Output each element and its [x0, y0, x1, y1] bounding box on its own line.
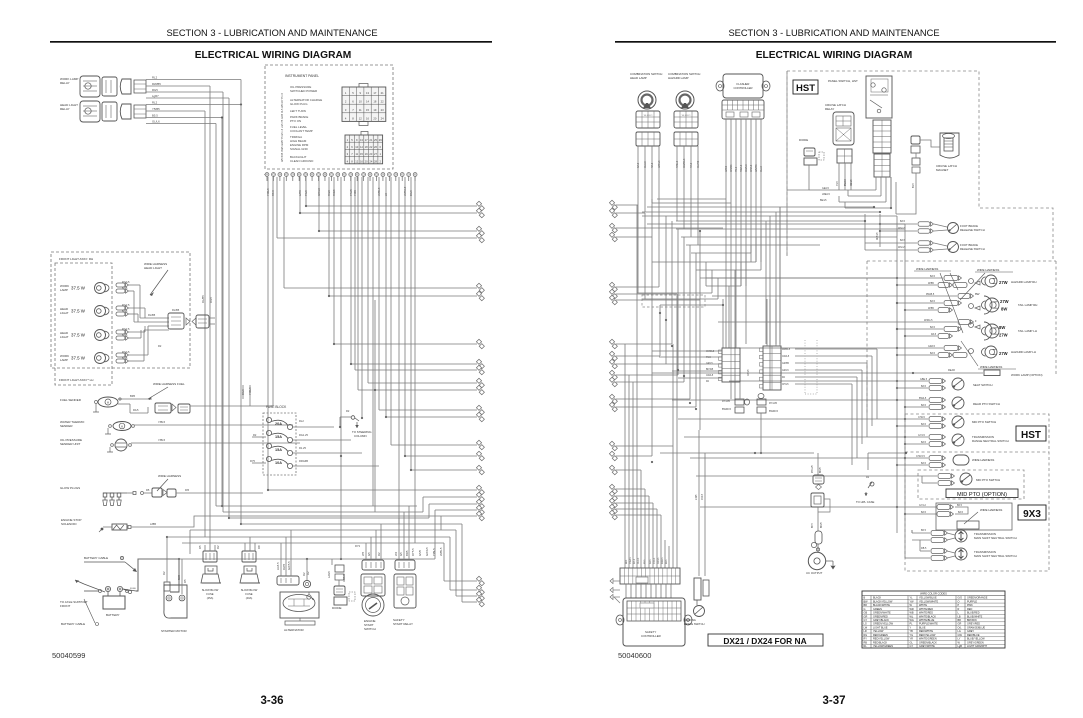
svg-text:RED/WHITE: RED/WHITE	[919, 630, 933, 633]
svg-text:INSTRUMENT PANEL: INSTRUMENT PANEL	[285, 74, 319, 78]
svg-text:W#B/L5: W#B/L5	[782, 349, 791, 351]
svg-text:YELLOW/GREEN: YELLOW/GREEN	[873, 645, 893, 648]
svg-text:GREEN/WHITE: GREEN/WHITE	[873, 612, 891, 615]
svg-text:10: 10	[359, 99, 362, 103]
svg-text:SECTION 3 - LUBRICATION AND MA: SECTION 3 - LUBRICATION AND MAINTENANCE	[728, 28, 939, 38]
svg-text:SEAT SWITCH: SEAT SWITCH	[973, 383, 993, 387]
left edge arrow wires	[616, 204, 638, 206]
svg-text:REAR: REAR	[948, 369, 955, 372]
svg-text:GY/L5: GY/L5	[654, 557, 656, 564]
svg-text:MID PTO (OPTION): MID PTO (OPTION)	[957, 492, 1007, 498]
svg-text:B/L5: B/L5	[921, 404, 927, 407]
svg-text:B/L5: B/L5	[921, 385, 927, 388]
diode	[335, 565, 344, 572]
svg-text:RY5.5: RY5.5	[411, 548, 415, 556]
svg-text:BLUE/YELLOW: BLUE/YELLOW	[967, 638, 985, 641]
panel switch connector stack	[873, 120, 891, 153]
svg-text:WL: WL	[910, 615, 914, 618]
pin row drop wires	[267, 177, 269, 490]
svg-text:LIGHT BLUE: LIGHT BLUE	[873, 626, 888, 629]
svg-text:R2: R2	[346, 409, 350, 413]
svg-text:RED/YELLOW: RED/YELLOW	[873, 638, 890, 641]
svg-text:W/BL5: W/BL5	[658, 160, 661, 168]
right page left edge arrows	[609, 200, 614, 205]
svg-text:W/B5: W/B5	[928, 282, 935, 285]
svg-text:BK#5: BK#5	[820, 467, 822, 473]
svg-text:START RELAY: START RELAY	[393, 622, 413, 626]
svg-text:GR: GR	[864, 615, 868, 618]
svg-text:W/B5: W/B5	[725, 165, 728, 172]
svg-text:AY/L5: AY/L5	[701, 493, 704, 500]
block A left wires	[652, 350, 722, 352]
svg-text:BATTERY CABLE: BATTERY CABLE	[61, 622, 85, 626]
svg-text:GW5.5: GW5.5	[287, 561, 291, 570]
svg-text:P/L5: P/L5	[690, 162, 693, 168]
instrument panel connector A	[359, 84, 368, 88]
svg-text:LW: LW	[864, 626, 868, 629]
svg-text:BLUE/WHITE: BLUE/WHITE	[967, 615, 983, 618]
svg-text:RW5: RW5	[282, 563, 286, 570]
svg-text:PINK: PINK	[967, 604, 973, 607]
svg-text:20: 20	[365, 159, 368, 163]
foot brake release switch 1	[918, 222, 930, 227]
HST label box	[793, 80, 818, 94]
svg-text:W/RG.5: W/RG.5	[924, 319, 933, 322]
svg-text:MAIN SHIFT NEUTRAL SWITCH: MAIN SHIFT NEUTRAL SWITCH	[974, 536, 1017, 540]
parking brake riser	[698, 430, 700, 576]
svg-text:LIGHT GRN/WHT: LIGHT GRN/WHT	[967, 645, 987, 648]
parking brake switch	[694, 578, 701, 600]
svg-text:GREEN/RED: GREEN/RED	[873, 615, 888, 618]
svg-text:STARTER MOTOR: STARTER MOTOR	[161, 629, 188, 633]
svg-text:15A: 15A	[275, 435, 282, 439]
svg-text:14: 14	[360, 145, 363, 149]
svg-text:(45A): (45A)	[207, 596, 214, 600]
svg-text:10A: 10A	[275, 461, 282, 465]
svg-text:WIRE HARNESS: WIRE HARNESS	[977, 268, 999, 272]
svg-text:BR5: BR5	[405, 550, 409, 556]
svg-text:P/L5: P/L5	[644, 559, 646, 564]
svg-text:R/L5: R/L5	[133, 408, 139, 412]
instrument panel box	[265, 65, 393, 169]
svg-text:PARKING: PARKING	[684, 618, 696, 622]
svg-text:B/L5: B/L5	[921, 441, 927, 444]
svg-text:WHITE/BLACK: WHITE/BLACK	[919, 615, 936, 618]
svg-text:W/B5: W/B5	[928, 307, 935, 310]
svg-text:LG: LG	[864, 623, 867, 626]
svg-text:GR/B5: GR/B5	[782, 363, 790, 365]
svg-text:RG2.5: RG2.5	[122, 303, 130, 307]
off-page arrows right edge	[306, 205, 477, 207]
svg-text:W2: W2	[394, 551, 398, 556]
svg-text:GY/L5: GY/L5	[918, 434, 925, 437]
svg-text:FUSE: FUSE	[245, 592, 252, 596]
svg-text:W/BL5: W/BL5	[662, 557, 664, 564]
safety controller connector strip	[620, 568, 680, 584]
svg-text:M: M	[121, 426, 123, 429]
svg-text:GR: GR	[958, 623, 962, 626]
svg-text:RG1.25: RG1.25	[299, 433, 308, 437]
svg-text:HEAD LIGHT: HEAD LIGHT	[144, 266, 162, 270]
svg-text:B6.5: B6.5	[957, 504, 963, 507]
cruise magnet connector	[911, 136, 920, 144]
svg-text:RL2: RL2	[152, 101, 158, 105]
svg-text:PTO ON: PTO ON	[290, 119, 301, 123]
svg-text:21: 21	[369, 138, 372, 142]
svg-text:RY5: RY5	[250, 459, 256, 463]
svg-text:GREY/RED: GREY/RED	[967, 623, 980, 626]
svg-text:B/L5: B/L5	[637, 162, 640, 168]
svg-text:LBE/L5: LBE/L5	[822, 193, 831, 196]
svg-text:R5: R5	[183, 579, 187, 583]
svg-text:G: G	[864, 608, 866, 611]
svg-text:23: 23	[381, 108, 384, 112]
lamps region dashed line	[867, 260, 1056, 262]
svg-text:B/L5: B/L5	[122, 356, 128, 360]
svg-text:WIRE HARNESS: WIRE HARNESS	[980, 508, 1002, 512]
svg-text:COOLANT TEMP: COOLANT TEMP	[290, 129, 313, 133]
svg-text:FUSE BLOCK: FUSE BLOCK	[266, 405, 287, 409]
svg-text:B/L5: B/L5	[122, 286, 128, 290]
svg-text:ELECTRICAL WIRING DIAGRAM: ELECTRICAL WIRING DIAGRAM	[195, 50, 352, 61]
svg-text:GL/L5: GL/L5	[644, 161, 647, 168]
relay output wires	[146, 79, 241, 81]
svg-text:R2: R2	[216, 545, 220, 549]
svg-text:B5.5: B5.5	[152, 114, 158, 118]
svg-text:YELLOW/BLUE: YELLOW/BLUE	[919, 597, 937, 600]
svg-text:22: 22	[369, 145, 372, 149]
svg-text:FRONT: FRONT	[60, 604, 70, 608]
svg-text:LAMP: LAMP	[60, 358, 68, 362]
svg-text:FUEL SENDER: FUEL SENDER	[60, 398, 82, 402]
svg-text:R2: R2	[302, 572, 306, 576]
svg-text:WIRE HARNESS FUEL: WIRE HARNESS FUEL	[153, 382, 185, 386]
svg-text:DB.5: DB.5	[921, 547, 927, 550]
svg-text:RY3: RY3	[355, 544, 361, 548]
svg-text:26: 26	[374, 145, 377, 149]
svg-text:ALTERNATOR: ALTERNATOR	[284, 628, 305, 632]
svg-text:R/L5: R/L5	[209, 297, 213, 303]
svg-text:GREY/BLACK: GREY/BLACK	[873, 619, 889, 622]
svg-text:WIRE HARNESS: WIRE HARNESS	[158, 474, 181, 478]
svg-text:R2: R2	[162, 571, 166, 575]
relay wire verticals	[240, 80, 242, 105]
svg-text:GR/B5: GR/B5	[730, 164, 733, 172]
svg-text:8W: 8W	[1001, 307, 1007, 312]
mid pto option box	[918, 470, 1024, 499]
svg-text:CONTROLLER: CONTROLLER	[641, 634, 661, 638]
lamp bus verticals	[896, 216, 898, 514]
battery	[103, 596, 125, 609]
svg-text:GREY: GREY	[967, 630, 974, 633]
svg-text:14: 14	[366, 99, 369, 103]
svg-text:LY: LY	[958, 638, 961, 641]
ring terminal	[303, 580, 310, 587]
svg-text:O/L: O/L	[958, 626, 963, 629]
hst region mesh	[820, 189, 876, 191]
svg-text:WLSW.PI: WLSW.PI	[644, 115, 653, 117]
slow blow fuse 40A	[242, 551, 256, 562]
svg-text:LgR7: LgR7	[152, 94, 159, 98]
svg-text:27W: 27W	[999, 333, 1008, 338]
svg-text:SLOW BLOW: SLOW BLOW	[241, 588, 258, 592]
svg-text:R: R	[958, 608, 960, 611]
svg-text:RL2: RL2	[152, 76, 158, 80]
svg-text:13: 13	[360, 138, 363, 142]
svg-text:27W: 27W	[999, 351, 1008, 356]
dx21 dx24 label	[708, 634, 823, 646]
svg-text:SECTION 3 - LUBRICATION AND MA: SECTION 3 - LUBRICATION AND MAINTENANCE	[166, 28, 377, 38]
uc output	[808, 552, 825, 569]
svg-text:R2: R2	[158, 344, 162, 348]
svg-text:B/L5: B/L5	[122, 333, 128, 337]
slow blow fuse 45A	[203, 551, 217, 562]
mesh junction dots	[651, 461, 653, 463]
svg-text:L#G5: L#G5	[327, 571, 331, 578]
svg-text:RED/GREEN: RED/GREEN	[873, 634, 888, 637]
svg-text:GREY/WHITE: GREY/WHITE	[919, 645, 935, 648]
svg-text:R5: R5	[146, 488, 150, 492]
fuel harness connectors	[155, 403, 171, 413]
svg-text:YELLOW/WHITE: YELLOW/WHITE	[919, 600, 939, 603]
svg-text:GW/L5: GW/L5	[745, 164, 748, 172]
svg-text:GR/L5: GR/L5	[658, 557, 660, 564]
svg-text:DIODE: DIODE	[799, 138, 808, 142]
svg-text:CH/L5: CH/L5	[638, 557, 640, 564]
svg-text:11: 11	[355, 152, 358, 156]
svg-text:37.5 W: 37.5 W	[71, 286, 86, 291]
svg-text:LEFT TURN: LEFT TURN	[290, 109, 306, 113]
svg-text:RY: RY	[864, 638, 868, 641]
svg-text:GR/L5: GR/L5	[750, 164, 753, 172]
svg-text:RELEASE SWITCH: RELEASE SWITCH	[960, 228, 985, 232]
svg-text:P/GL5: P/GL5	[676, 160, 679, 168]
svg-text:LG: LG	[958, 630, 961, 633]
svg-text:BLACK/YELLOW: BLACK/YELLOW	[873, 600, 893, 603]
lamp bus risers	[896, 514, 898, 533]
svg-text:SLOW BLOW: SLOW BLOW	[202, 588, 219, 592]
svg-text:R/5: R/5	[185, 488, 190, 492]
dashed placeholder box	[642, 295, 705, 307]
svg-text:DX21 / DX24 FOR NA: DX21 / DX24 FOR NA	[723, 636, 806, 646]
svg-text:BE/L5: BE/L5	[820, 199, 827, 202]
svg-text:B/L5: B/L5	[930, 300, 936, 303]
svg-text:R5: R5	[198, 545, 202, 549]
stair risers right	[422, 497, 424, 512]
head light mating connectors	[168, 313, 184, 329]
svg-text:GW/L5: GW/L5	[706, 375, 714, 377]
svg-text:3-36: 3-36	[260, 695, 283, 707]
svg-text:16: 16	[360, 159, 363, 163]
mid pto option label	[946, 489, 1018, 498]
foot brake release switch 2	[918, 241, 930, 246]
svg-text:LB: LB	[958, 615, 961, 618]
svg-text:GREEN: GREEN	[873, 608, 882, 611]
svg-text:12: 12	[359, 117, 362, 121]
left bundle verticals	[624, 344, 626, 568]
svg-text:HAZARD LAMP LH: HAZARD LAMP LH	[1011, 350, 1036, 354]
svg-text:YR: YR	[910, 638, 914, 641]
svg-text:PURPLE: PURPLE	[967, 600, 977, 603]
svg-text:R/L5: R/L5	[651, 162, 654, 168]
svg-text:20A: 20A	[275, 422, 282, 426]
strip to controller wires	[625, 584, 627, 598]
svg-text:G5: G5	[399, 552, 403, 556]
wire harness leader lines	[940, 273, 963, 333]
svg-text:LIGHT: LIGHT	[60, 311, 69, 315]
svg-text:HAZARD LAMP: HAZARD LAMP	[668, 76, 689, 80]
svg-text:GR/L5: GR/L5	[782, 370, 789, 372]
svg-text:LG5.5: LG5.5	[276, 562, 280, 570]
svg-text:37.5 W: 37.5 W	[71, 309, 86, 314]
svg-text:Y/BL5: Y/BL5	[158, 420, 166, 424]
svg-text:G/O: G/O	[958, 597, 963, 600]
svg-text:LAMP: LAMP	[60, 288, 68, 292]
svg-text:RRG#B: RRG#B	[299, 459, 308, 463]
svg-text:BW/R15: BW/R15	[722, 408, 732, 411]
svg-text:GB: GB	[864, 612, 868, 615]
svg-text:CH/L5: CH/L5	[918, 416, 925, 419]
svg-text:37.5 W: 37.5 W	[71, 333, 86, 338]
svg-text:20: 20	[373, 117, 376, 121]
panel switch hst	[866, 76, 892, 118]
svg-text:WB: WB	[910, 612, 914, 615]
battery to starter cable	[123, 589, 136, 591]
flasher controller connector	[722, 100, 764, 119]
svg-text:GW/BL5: GW/BL5	[683, 158, 686, 168]
svg-text:B/L5: B/L5	[122, 309, 128, 313]
svg-text:BLACK/WHITE: BLACK/WHITE	[873, 604, 890, 607]
svg-text:GY/L5: GY/L5	[748, 369, 750, 376]
instrument panel connector B	[361, 132, 368, 136]
svg-text:BW/L5: BW/L5	[919, 397, 927, 400]
svg-text:R2: R2	[377, 552, 381, 556]
svg-text:8W: 8W	[975, 292, 980, 296]
svg-text:YELLOW: YELLOW	[873, 630, 884, 633]
svg-text:19: 19	[373, 108, 376, 112]
svg-text:GW/L5: GW/L5	[630, 556, 632, 564]
svg-text:SIGNAL GND: SIGNAL GND	[290, 147, 308, 151]
svg-text:(40A): (40A)	[246, 596, 253, 600]
svg-text:BR5: BR5	[130, 394, 136, 398]
svg-text:P5.5: P5.5	[735, 166, 738, 172]
svg-text:21: 21	[381, 91, 384, 95]
svg-text:B/L5: B/L5	[921, 511, 927, 514]
svg-text:MID PTO SWITCH: MID PTO SWITCH	[976, 478, 1000, 482]
svg-text:RELEASE SWITCH: RELEASE SWITCH	[960, 247, 985, 251]
svg-text:SENDER UNIT: SENDER UNIT	[60, 442, 81, 446]
svg-text:RED/YELLOW: RED/YELLOW	[919, 634, 936, 637]
svg-text:24: 24	[369, 159, 372, 163]
svg-text:28: 28	[374, 159, 377, 163]
svg-text:9X3: 9X3	[1023, 509, 1041, 520]
dotted linkage	[804, 340, 806, 394]
svg-text:B/L5: B/L5	[958, 511, 964, 514]
svg-text:B/L5: B/L5	[913, 183, 915, 188]
svg-text:RL/B5: RL/B5	[201, 295, 205, 303]
svg-text:WIRE HARNESS: WIRE HARNESS	[972, 458, 994, 462]
svg-text:CH/L5: CH/L5	[782, 384, 789, 386]
svg-text:B/L5: B/L5	[930, 326, 936, 329]
svg-text:B/L5: B/L5	[900, 220, 906, 223]
svg-text:RED/BLUE: RED/BLUE	[967, 634, 980, 637]
svg-text:R1.25: R1.25	[299, 446, 306, 450]
panel switch drop wires	[875, 177, 877, 190]
strip side arrows	[610, 578, 613, 583]
svg-text:Y/BL5: Y/BL5	[432, 548, 436, 556]
svg-text:RELAY: RELAY	[60, 107, 70, 111]
svg-text:GR/L5: GR/L5	[928, 345, 936, 348]
svg-text:WHITE/BLUE: WHITE/BLUE	[919, 619, 935, 622]
svg-text:SWITCH: SWITCH	[364, 627, 376, 631]
svg-text:RY/L#5: RY/L#5	[722, 400, 731, 403]
svg-text:FRONT LIGHT ASSY* LH: FRONT LIGHT ASSY* LH	[59, 378, 93, 382]
svg-text:W/BL5: W/BL5	[439, 547, 443, 556]
svg-text:HST: HST	[796, 83, 815, 94]
svg-text:W5/R5: W5/R5	[755, 164, 758, 172]
svg-text:WORK LAMP (OPTION): WORK LAMP (OPTION)	[1011, 373, 1042, 377]
svg-text:HEAD LAMP: HEAD LAMP	[630, 76, 647, 80]
mesh verticals	[637, 205, 639, 293]
svg-text:HST: HST	[1021, 430, 1041, 441]
svg-text:BW: BW	[864, 600, 869, 603]
svg-text:RG/L5: RG/L5	[122, 280, 130, 284]
dashed separator	[905, 451, 1049, 453]
svg-text:BK#5: BK#5	[821, 522, 823, 528]
svg-text:50040600: 50040600	[618, 651, 651, 660]
svg-text:BLUE/RED: BLUE/RED	[967, 612, 980, 615]
safety controller	[623, 598, 685, 646]
svg-text:YW: YW	[910, 600, 915, 603]
svg-text:PANEL SWITCH, HST: PANEL SWITCH, HST	[828, 79, 858, 83]
svg-text:BLUE: BLUE	[919, 626, 926, 629]
svg-text:LgB: LgB	[958, 645, 963, 648]
svg-text:RL2: RL2	[299, 419, 304, 423]
svg-text:WLSW.PI: WLSW.PI	[682, 115, 691, 117]
svg-text:W5 BR5 RW5 GW5 Y5 G5 L5 LG5 P5: W5 BR5 RW5 GW5 Y5 G5 L5 LG5 P5 GR5 RL5 W…	[281, 92, 284, 162]
svg-text:GL/L6: GL/L6	[152, 120, 160, 124]
svg-text:SWITCHED POWER: SWITCHED POWER	[290, 89, 317, 93]
connector block drops	[725, 176, 727, 348]
cruise latch magnet	[940, 133, 959, 158]
svg-text:27W: 27W	[1000, 299, 1009, 304]
svg-text:B6.5: B6.5	[812, 523, 814, 528]
svg-text:B/L5: B/L5	[930, 352, 936, 355]
svg-text:GREEN/YELLOW: GREEN/YELLOW	[873, 623, 894, 626]
svg-text:L/W5: L/W5	[696, 494, 698, 500]
svg-text:RG: RG	[864, 634, 868, 637]
svg-text:RL/B5: RL/B5	[148, 313, 156, 317]
svg-text:MAGNET: MAGNET	[936, 168, 949, 172]
svg-text:WHITE/RED: WHITE/RED	[919, 612, 933, 615]
svg-text:GLOW PLUG: GLOW PLUG	[290, 102, 308, 106]
svg-text:UC OUTPUT: UC OUTPUT	[806, 571, 823, 575]
cruise relay drop wires	[838, 163, 840, 190]
instrument panel pin row	[265, 173, 269, 177]
svg-text:WIRE HARNESS: WIRE HARNESS	[980, 365, 1002, 369]
svg-text:B: B	[312, 597, 314, 601]
svg-text:RED/BLACK: RED/BLACK	[873, 641, 888, 644]
svg-text:TAIL LAMP RH: TAIL LAMP RH	[1018, 303, 1037, 307]
svg-text:R2: R2	[253, 433, 257, 437]
svg-text:15: 15	[360, 152, 363, 156]
svg-text:LIGHT: LIGHT	[60, 335, 69, 339]
svg-text:18: 18	[373, 99, 376, 103]
svg-text:27W: 27W	[999, 280, 1008, 285]
svg-text:M: M	[107, 401, 109, 405]
svg-text:ELECTRICAL WIRING DIAGRAM: ELECTRICAL WIRING DIAGRAM	[756, 50, 913, 61]
alternator	[277, 576, 299, 585]
